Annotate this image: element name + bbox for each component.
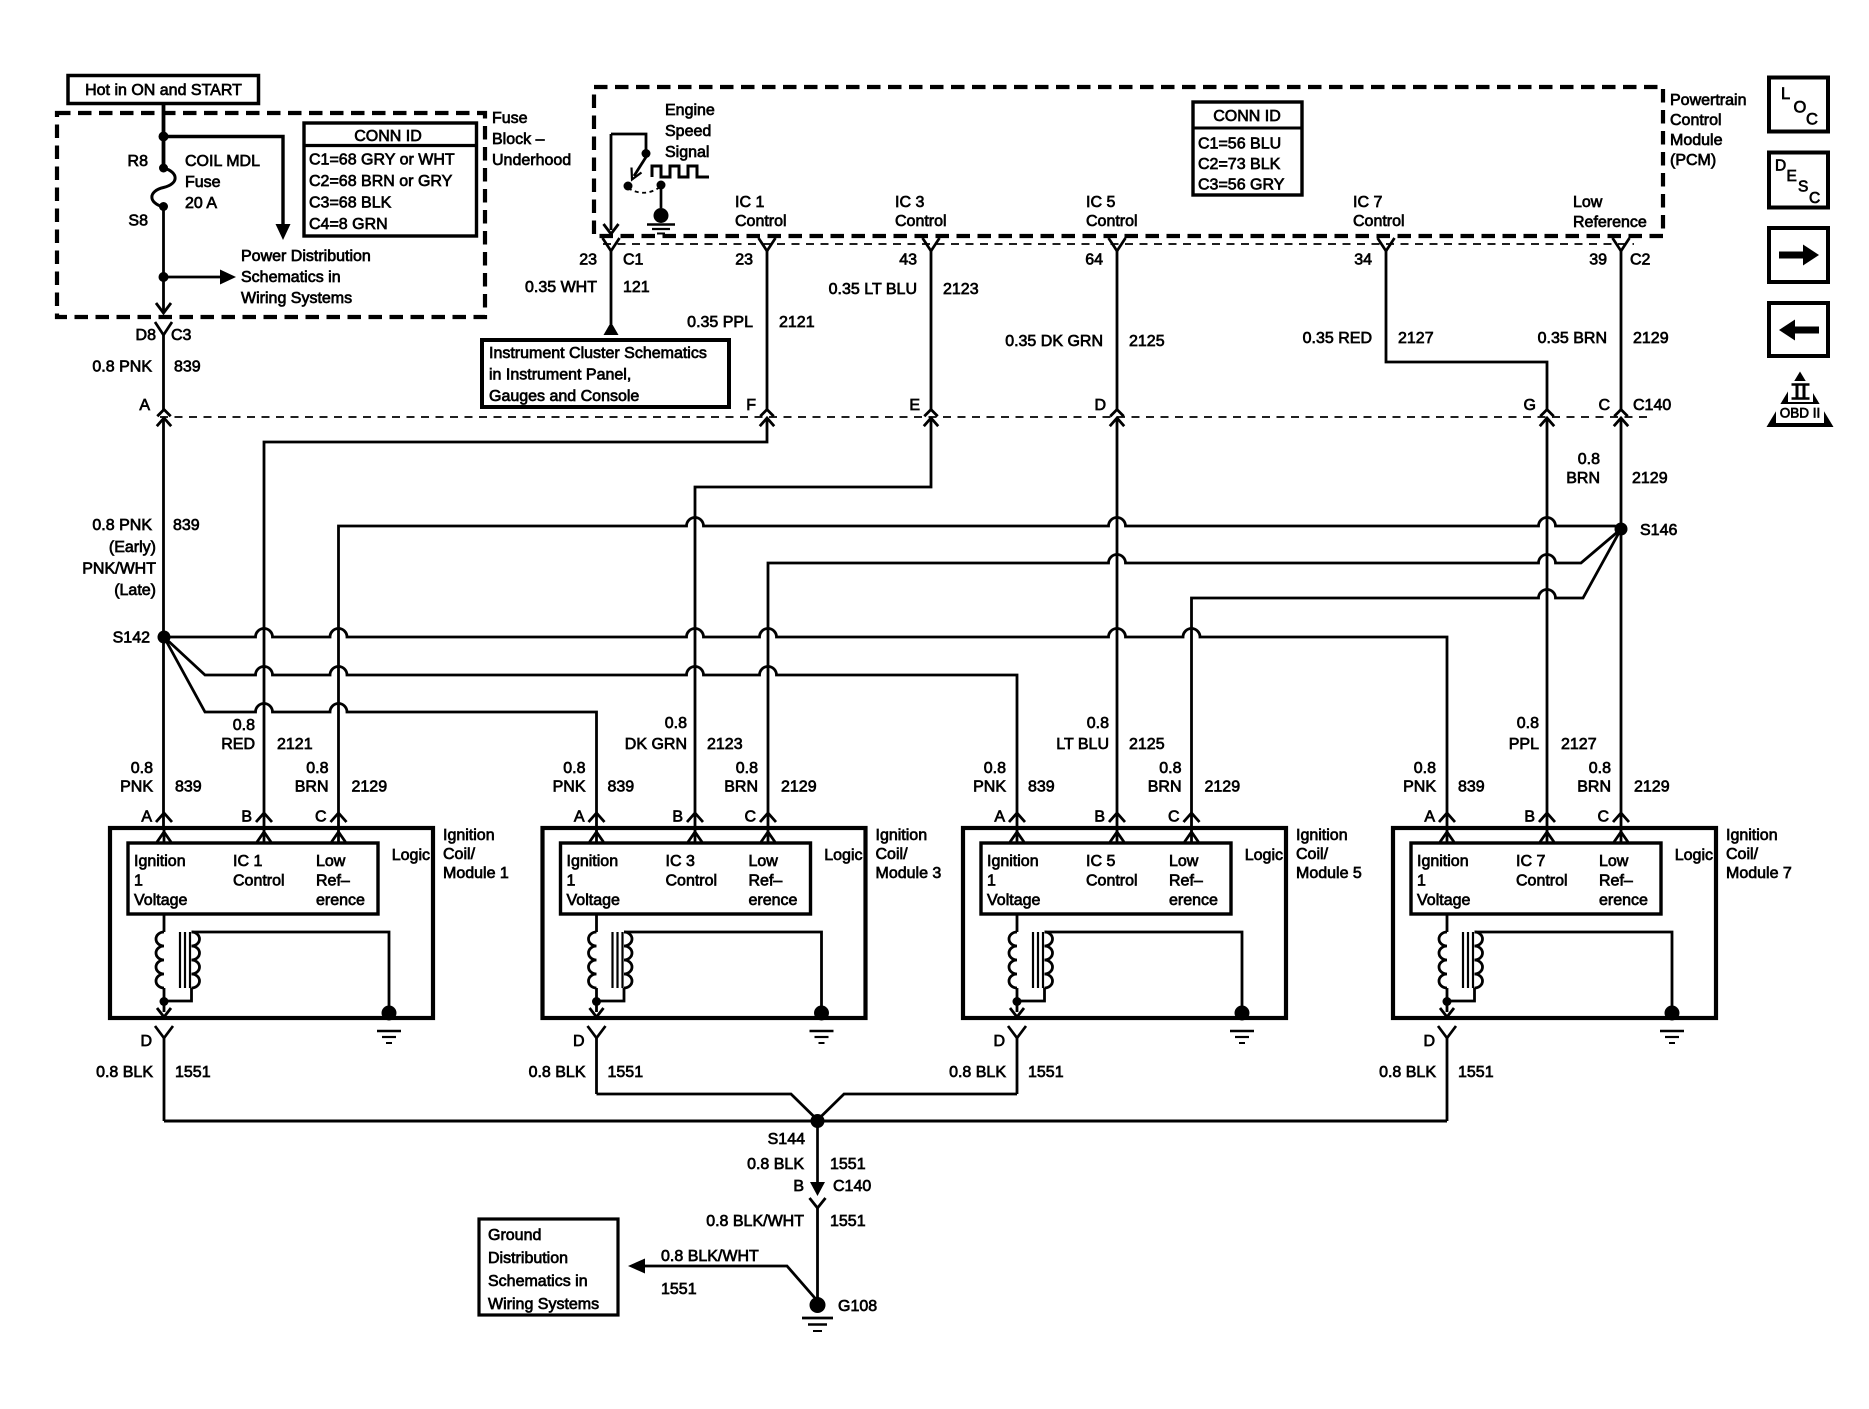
svg-text:C: C xyxy=(744,809,756,826)
internal arrow into logic block xyxy=(163,830,166,843)
svg-text:Ground: Ground xyxy=(488,1227,541,1244)
svg-text:erence: erence xyxy=(316,892,365,909)
svg-text:Ignition: Ignition xyxy=(1417,853,1469,870)
svg-text:Low: Low xyxy=(749,853,779,870)
svg-text:2125: 2125 xyxy=(1129,333,1165,350)
svg-text:0.8 PNK: 0.8 PNK xyxy=(92,359,152,376)
svg-text:erence: erence xyxy=(1169,892,1218,909)
svg-text:CONN ID: CONN ID xyxy=(354,128,422,145)
ignition coil module 7 box xyxy=(1393,828,1716,1018)
wire 0.35 RED 2127 from pin 34 xyxy=(1386,251,1547,828)
svg-text:Ignition: Ignition xyxy=(876,827,928,844)
svg-text:PNK: PNK xyxy=(973,779,1006,796)
module 3 secondary to internal ground wire xyxy=(624,932,822,1007)
node junction to power distribution schematics xyxy=(159,272,169,282)
svg-text:0.35 RED: 0.35 RED xyxy=(1303,330,1372,347)
svg-text:0.8: 0.8 xyxy=(984,760,1006,777)
inline connector C140 pin A xyxy=(157,410,170,417)
wire 0.35 BRN 2129 low reference xyxy=(1620,251,1623,828)
svg-text:C140: C140 xyxy=(1633,397,1671,414)
module 5 internal ground xyxy=(1235,1006,1250,1021)
connector B C140 arrow xyxy=(810,1182,825,1196)
module 1 internal ground xyxy=(382,1006,397,1021)
module 3 logic block box xyxy=(561,843,811,914)
svg-text:Control: Control xyxy=(1353,213,1405,230)
svg-text:PNK: PNK xyxy=(1403,779,1436,796)
svg-text:0.8: 0.8 xyxy=(1578,451,1600,468)
ground G108 xyxy=(810,1297,826,1313)
engine speed switch contact right xyxy=(657,181,666,190)
connector D8 C3 xyxy=(155,322,172,335)
svg-text:Instrument Cluster Schematics: Instrument Cluster Schematics xyxy=(489,345,707,362)
splice S142 xyxy=(158,631,171,644)
svg-text:Module 5: Module 5 xyxy=(1296,865,1362,882)
internal arrow into logic block xyxy=(1546,830,1549,843)
wire module 3 ground jog xyxy=(597,1094,818,1120)
svg-text:C2: C2 xyxy=(1630,252,1651,269)
svg-text:Ignition: Ignition xyxy=(443,827,495,844)
module 3 coil secondary winding xyxy=(624,932,632,988)
svg-text:A: A xyxy=(574,809,585,826)
svg-text:Coil/: Coil/ xyxy=(443,846,476,863)
svg-text:Module: Module xyxy=(1670,132,1723,149)
svg-text:D: D xyxy=(140,1033,152,1050)
ground symbol engine speed signal xyxy=(654,208,669,223)
svg-text:1551: 1551 xyxy=(1458,1064,1494,1081)
wire label 0.8 PNK 839 early late xyxy=(82,517,200,599)
module 5 secondary to internal ground wire xyxy=(1045,932,1243,1007)
svg-text:S142: S142 xyxy=(113,630,150,647)
module 5 pin B connector xyxy=(1109,813,1125,822)
svg-text:BRN: BRN xyxy=(1577,779,1611,796)
svg-text:Logic: Logic xyxy=(1675,847,1713,864)
svg-text:S8: S8 xyxy=(128,213,148,230)
wire 0.8 PNK 839 from C3 to connector A xyxy=(162,335,165,828)
svg-text:Fuse: Fuse xyxy=(492,110,528,127)
svg-text:Coil/: Coil/ xyxy=(876,846,909,863)
module 1 coil secondary winding xyxy=(192,932,200,988)
fuse COIL MDL 20A symbol xyxy=(152,168,175,207)
svg-text:Control: Control xyxy=(1086,873,1138,890)
svg-text:Module 7: Module 7 xyxy=(1726,865,1792,882)
PCM pin 34 connector xyxy=(1378,238,1395,251)
icon DESC box xyxy=(1769,153,1828,208)
module 5 coil primary winding xyxy=(1016,914,1019,932)
svg-text:C3: C3 xyxy=(171,327,192,344)
svg-text:(Late): (Late) xyxy=(114,582,156,599)
svg-text:Logic: Logic xyxy=(392,847,430,864)
svg-text:IC 5: IC 5 xyxy=(1086,853,1115,870)
module 1 pin B connector xyxy=(256,813,272,822)
svg-text:2125: 2125 xyxy=(1129,736,1165,753)
svg-text:Control: Control xyxy=(1516,873,1568,890)
engine speed signal label xyxy=(665,102,715,161)
PCM pin 64 connector xyxy=(1109,238,1126,251)
wire low reference bus module 3 to S146 xyxy=(768,529,1621,828)
svg-text:IC 7: IC 7 xyxy=(1516,853,1545,870)
module 7 secondary to internal ground wire xyxy=(1475,932,1673,1007)
module 3 coil primary winding xyxy=(595,914,598,932)
svg-text:Logic: Logic xyxy=(824,847,862,864)
wire 0.8 BLK 1551 module 5 xyxy=(1016,1038,1019,1094)
svg-text:C: C xyxy=(315,809,327,826)
wire fuse S8 down to fuse block exit xyxy=(162,207,165,312)
svg-text:PPL: PPL xyxy=(1509,736,1539,753)
svg-text:OBD II: OBD II xyxy=(1780,406,1821,421)
wire to ground distribution reference xyxy=(645,1266,818,1301)
svg-text:Engine: Engine xyxy=(665,102,715,119)
svg-text:Control: Control xyxy=(895,213,947,230)
svg-text:C: C xyxy=(1809,190,1820,207)
svg-text:C: C xyxy=(1598,397,1610,414)
module 1 primary-secondary junction xyxy=(160,997,169,1006)
svg-text:Underhood: Underhood xyxy=(492,152,571,169)
svg-text:Distribution: Distribution xyxy=(488,1250,568,1267)
svg-text:Ignition: Ignition xyxy=(987,853,1039,870)
svg-text:2123: 2123 xyxy=(707,736,743,753)
engine speed switch arm with arrowhead xyxy=(634,157,646,176)
svg-text:IC 1: IC 1 xyxy=(735,194,764,211)
module 5 pin D connector xyxy=(1008,1026,1026,1038)
fuse value label COIL MDL Fuse 20 A xyxy=(185,153,260,212)
svg-text:Voltage: Voltage xyxy=(567,892,620,909)
svg-text:C: C xyxy=(1597,809,1609,826)
svg-text:Ignition: Ignition xyxy=(567,853,619,870)
svg-text:D: D xyxy=(1775,158,1786,175)
engine speed switch dashed travel arc xyxy=(628,187,660,193)
svg-text:B: B xyxy=(1094,809,1105,826)
svg-text:B: B xyxy=(793,1178,804,1195)
svg-text:121: 121 xyxy=(623,279,650,296)
svg-text:BRN: BRN xyxy=(295,779,329,796)
PCM pin 23 connector xyxy=(759,238,776,251)
svg-text:1551: 1551 xyxy=(1028,1064,1064,1081)
svg-text:C: C xyxy=(1168,809,1180,826)
module 3 pin A connector xyxy=(589,813,605,822)
svg-text:Wiring Systems: Wiring Systems xyxy=(488,1296,599,1313)
C140 connector dashed line xyxy=(160,416,1650,418)
wire pnk bus to module 3 pin A xyxy=(164,637,597,828)
fuse block label xyxy=(492,110,571,169)
svg-text:2129: 2129 xyxy=(781,779,817,796)
svg-text:2127: 2127 xyxy=(1398,330,1434,347)
inline connector C140 pin F xyxy=(760,410,773,417)
svg-text:IC 1: IC 1 xyxy=(233,853,262,870)
svg-text:23: 23 xyxy=(579,252,597,269)
svg-text:0.8: 0.8 xyxy=(1589,760,1611,777)
wire pnk bus to module 5 pin A xyxy=(164,637,1017,828)
svg-text:D: D xyxy=(993,1033,1005,1050)
svg-text:C4=8 GRN: C4=8 GRN xyxy=(309,216,388,233)
svg-text:C2=73 BLK: C2=73 BLK xyxy=(1198,156,1281,173)
engine speed signal wire xyxy=(611,134,646,150)
module 1 pin A connector xyxy=(156,813,172,822)
svg-text:Control: Control xyxy=(1670,112,1722,129)
module 7 coil primary winding xyxy=(1446,914,1449,932)
svg-text:D8: D8 xyxy=(136,327,157,344)
wire switch to ground xyxy=(660,185,663,208)
svg-text:0.8: 0.8 xyxy=(1087,715,1109,732)
svg-text:C140: C140 xyxy=(833,1178,871,1195)
svg-text:Ignition: Ignition xyxy=(1296,827,1348,844)
module 1 coil core xyxy=(179,932,181,988)
wire 0.35 PPL 2121 from pin 23 xyxy=(264,251,767,828)
module 7 logic block box xyxy=(1411,843,1661,914)
module 1 secondary to internal ground wire xyxy=(192,932,390,1007)
module 1 coil primary winding xyxy=(163,914,166,932)
svg-text:G: G xyxy=(1524,397,1536,414)
svg-text:BRN: BRN xyxy=(1148,779,1182,796)
svg-text:839: 839 xyxy=(174,359,201,376)
svg-text:Ref–: Ref– xyxy=(749,873,783,890)
splice S144 xyxy=(811,1114,825,1128)
powertrain control module dashed box xyxy=(594,87,1663,236)
svg-text:Hot in ON and START: Hot in ON and START xyxy=(85,82,242,99)
internal arrow into logic block xyxy=(337,830,340,843)
svg-text:E: E xyxy=(909,397,920,414)
svg-text:0.35 WHT: 0.35 WHT xyxy=(525,279,597,296)
svg-text:839: 839 xyxy=(173,517,200,534)
svg-text:Control: Control xyxy=(1086,213,1138,230)
module 3 coil core xyxy=(611,932,613,988)
internal arrow into logic block xyxy=(1190,830,1193,843)
svg-text:0.8: 0.8 xyxy=(563,760,585,777)
module 5 label xyxy=(1296,827,1362,882)
wire low reference bus module 5 to S146 xyxy=(1192,529,1622,828)
svg-text:0.8 PNK: 0.8 PNK xyxy=(92,517,152,534)
svg-text:PNK: PNK xyxy=(120,779,153,796)
svg-text:Control: Control xyxy=(666,873,718,890)
svg-text:Power Distribution: Power Distribution xyxy=(241,248,371,265)
wire low reference bus module 1 to S146 xyxy=(339,518,1622,829)
PCM name label xyxy=(1670,92,1746,169)
PCM connector face dashed line xyxy=(603,243,1634,245)
svg-text:BRN: BRN xyxy=(724,779,758,796)
svg-text:D: D xyxy=(1423,1033,1435,1050)
wire PCM pin 23 C1 engine speed out xyxy=(610,134,613,230)
internal arrow into logic block xyxy=(1016,830,1019,843)
svg-text:A: A xyxy=(994,809,1005,826)
PCM pin 43 connector xyxy=(923,238,940,251)
svg-text:839: 839 xyxy=(175,779,202,796)
inline connector C140 pin D xyxy=(1110,410,1123,417)
module 3 internal ground xyxy=(814,1006,829,1021)
arrowhead at fuse block exit xyxy=(156,303,171,313)
engine speed switch contact left xyxy=(624,182,633,191)
node junction at fuse feed xyxy=(159,132,169,142)
svg-text:23: 23 xyxy=(735,252,753,269)
module 1 arrowhead at pin D inside box xyxy=(157,1008,171,1017)
internal arrow into logic block xyxy=(694,830,697,843)
module 5 coil core xyxy=(1032,932,1034,988)
svg-text:S146: S146 xyxy=(1640,522,1677,539)
PCM pin 39 C2 connector xyxy=(1613,238,1630,251)
svg-text:Low: Low xyxy=(1169,853,1199,870)
inline connector C140 pin C xyxy=(1614,410,1627,417)
svg-text:839: 839 xyxy=(1458,779,1485,796)
svg-text:A: A xyxy=(1424,809,1435,826)
module 7 pin D connector xyxy=(1438,1026,1456,1038)
svg-text:Control: Control xyxy=(735,213,787,230)
svg-text:A: A xyxy=(139,397,150,414)
svg-text:B: B xyxy=(241,809,252,826)
module 3 primary-secondary junction xyxy=(592,997,601,1006)
svg-text:2121: 2121 xyxy=(779,314,815,331)
svg-text:Gauges and Console: Gauges and Console xyxy=(489,388,639,405)
module 3 arrowhead at pin D inside box xyxy=(590,1008,604,1017)
module 7 primary-secondary junction xyxy=(1443,997,1452,1006)
svg-text:0.35 LT BLU: 0.35 LT BLU xyxy=(829,281,917,298)
module 1 pin D connector xyxy=(155,1026,173,1038)
conn id table fuse block xyxy=(304,123,477,236)
svg-text:CONN ID: CONN ID xyxy=(1213,108,1281,125)
internal arrow into logic block xyxy=(767,830,770,843)
svg-text:0.35 BRN: 0.35 BRN xyxy=(1538,330,1607,347)
svg-text:Reference: Reference xyxy=(1573,214,1647,231)
svg-text:2129: 2129 xyxy=(1634,779,1670,796)
svg-text:C1=56 BLU: C1=56 BLU xyxy=(1198,136,1281,153)
svg-text:(Early): (Early) xyxy=(109,539,156,556)
icon LOC box xyxy=(1769,78,1828,132)
module 1 logic block box xyxy=(128,843,378,914)
ground distribution reference box xyxy=(479,1219,618,1315)
svg-text:F: F xyxy=(746,397,756,414)
svg-text:PNK/WHT: PNK/WHT xyxy=(82,561,156,578)
svg-text:Ref–: Ref– xyxy=(1599,873,1633,890)
wire from hot feed to fuse R8 xyxy=(162,104,166,168)
svg-text:Signal: Signal xyxy=(665,144,709,161)
internal arrow into logic block xyxy=(1446,830,1449,843)
svg-text:Block –: Block – xyxy=(492,131,545,148)
svg-text:1551: 1551 xyxy=(661,1281,697,1298)
svg-text:Module 1: Module 1 xyxy=(443,865,509,882)
module 7 coil secondary winding xyxy=(1475,932,1483,988)
wire 0.8 BLK WHT 1551 to G108 xyxy=(816,1208,819,1298)
module 1 pin C connector xyxy=(331,813,347,822)
internal arrow into logic block xyxy=(595,830,598,843)
svg-text:1551: 1551 xyxy=(830,1156,866,1173)
internal arrow into logic block xyxy=(1116,830,1119,843)
svg-text:1: 1 xyxy=(567,873,576,890)
svg-text:1551: 1551 xyxy=(830,1213,866,1230)
svg-text:43: 43 xyxy=(899,252,917,269)
module 3 logic inputs label xyxy=(567,853,798,909)
svg-text:Wiring Systems: Wiring Systems xyxy=(241,290,352,307)
svg-text:Schematics in: Schematics in xyxy=(241,269,341,286)
svg-text:20 A: 20 A xyxy=(185,195,217,212)
svg-text:Ref–: Ref– xyxy=(1169,873,1203,890)
module 3 label xyxy=(876,827,942,882)
svg-text:34: 34 xyxy=(1354,252,1372,269)
wire 0.35 LT BLU 2123 from pin 43 xyxy=(695,251,931,828)
wire 0.8 BLK 1551 module 7 xyxy=(1446,1038,1449,1121)
internal arrow into logic block xyxy=(263,830,266,843)
svg-text:2129: 2129 xyxy=(1632,470,1668,487)
svg-text:0.8: 0.8 xyxy=(233,717,255,734)
svg-text:IC 5: IC 5 xyxy=(1086,194,1115,211)
svg-text:Schematics in: Schematics in xyxy=(488,1273,588,1290)
instrument cluster schematics reference box xyxy=(482,340,729,407)
icon back arrow box xyxy=(1769,303,1828,356)
svg-text:2121: 2121 xyxy=(277,736,313,753)
svg-text:C3=56 GRY: C3=56 GRY xyxy=(1198,177,1285,194)
svg-text:Voltage: Voltage xyxy=(134,892,187,909)
module 5 coil secondary winding xyxy=(1045,932,1053,988)
svg-text:Voltage: Voltage xyxy=(1417,892,1470,909)
icon forward arrow box xyxy=(1769,228,1828,282)
ignition coil module 5 box xyxy=(963,828,1286,1018)
svg-text:Coil/: Coil/ xyxy=(1726,846,1759,863)
svg-text:DK GRN: DK GRN xyxy=(625,736,687,753)
module 3 pin B connector xyxy=(687,813,703,822)
svg-text:0.8: 0.8 xyxy=(131,760,153,777)
svg-text:A: A xyxy=(141,809,152,826)
inline connector C140 pin E xyxy=(924,410,937,417)
svg-text:Module 3: Module 3 xyxy=(876,865,942,882)
svg-text:1551: 1551 xyxy=(175,1064,211,1081)
svg-text:0.8 BLK: 0.8 BLK xyxy=(1379,1064,1436,1081)
PCM pin 23 C1 connector xyxy=(603,238,620,251)
svg-text:IC 3: IC 3 xyxy=(666,853,695,870)
svg-text:839: 839 xyxy=(608,779,635,796)
wire branch to power distribution arrow xyxy=(164,137,284,225)
svg-text:Logic: Logic xyxy=(1245,847,1283,864)
svg-text:Low: Low xyxy=(316,853,346,870)
svg-text:G108: G108 xyxy=(838,1298,877,1315)
arrowhead at PCM box edge pin C1 xyxy=(604,224,619,234)
svg-text:Low: Low xyxy=(1599,853,1629,870)
svg-text:2127: 2127 xyxy=(1561,736,1597,753)
module 5 pin A connector xyxy=(1009,813,1025,822)
svg-text:C3=68 BLK: C3=68 BLK xyxy=(309,195,392,212)
ignition coil module 3 box xyxy=(543,828,866,1018)
svg-text:0.8: 0.8 xyxy=(1517,715,1539,732)
svg-text:L: L xyxy=(1781,85,1790,103)
icon OBD II triangle xyxy=(1767,372,1834,428)
module 7 pin A connector xyxy=(1439,813,1455,822)
wire pnk bus to module 7 pin A xyxy=(164,629,1447,829)
wire module 5 ground jog xyxy=(818,1094,1018,1120)
svg-text:Ignition: Ignition xyxy=(134,853,186,870)
svg-text:Fuse: Fuse xyxy=(185,174,221,191)
wire to power distribution schematics arrow xyxy=(164,276,221,279)
inline connector C140 pin G xyxy=(1540,410,1553,417)
arrow up into wire from instrument cluster box xyxy=(604,322,619,335)
svg-text:1: 1 xyxy=(987,873,996,890)
wire 0.8 BLK 1551 to C140 pin B xyxy=(816,1121,819,1184)
arrow left to ground distribution schematics xyxy=(628,1259,645,1274)
svg-text:0.8 BLK: 0.8 BLK xyxy=(96,1064,153,1081)
svg-text:Speed: Speed xyxy=(665,123,711,140)
svg-text:erence: erence xyxy=(749,892,798,909)
svg-text:0.8: 0.8 xyxy=(736,760,758,777)
module 3 pin C connector xyxy=(760,813,776,822)
instrument cluster reference label xyxy=(489,345,707,405)
svg-text:COIL MDL: COIL MDL xyxy=(185,153,260,170)
svg-text:0.8 BLK: 0.8 BLK xyxy=(529,1064,586,1081)
svg-text:0.8 BLK: 0.8 BLK xyxy=(949,1064,1006,1081)
wire 0.8 BLK 1551 module 1 xyxy=(163,1038,166,1121)
ignition coil module 1 box xyxy=(110,828,433,1018)
module 7 logic inputs label xyxy=(1417,853,1648,909)
svg-text:0.35 DK GRN: 0.35 DK GRN xyxy=(1005,333,1103,350)
svg-text:S: S xyxy=(1798,179,1808,196)
wire 0.35 DK GRN 2125 from pin 64 xyxy=(1116,251,1119,828)
svg-text:E: E xyxy=(1787,168,1797,185)
svg-text:0.8 BLK/WHT: 0.8 BLK/WHT xyxy=(661,1248,759,1265)
svg-text:0.8: 0.8 xyxy=(1414,760,1436,777)
module 1 label xyxy=(443,827,509,882)
